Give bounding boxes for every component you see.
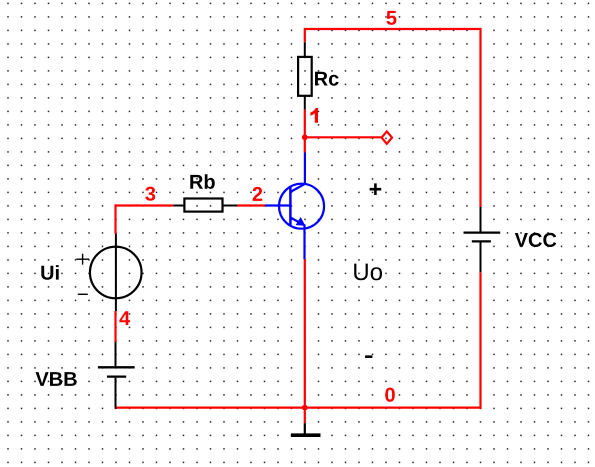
wire right vertical upper (net5 to VCC) bbox=[479, 28, 481, 207]
junction node 0 bbox=[302, 405, 308, 411]
junction node 1 bbox=[302, 134, 308, 140]
wire net0 bottom horizontal bbox=[116, 407, 481, 409]
label VCC bbox=[515, 233, 557, 247]
label Ui bbox=[41, 265, 58, 280]
wire net4 (Ui to VBB) bbox=[114, 311, 116, 342]
wire net5 top horizontal bbox=[305, 28, 481, 30]
wire net2 (Rb to base) bbox=[237, 204, 265, 206]
wire ground stub bbox=[304, 408, 306, 424]
node label 2 bbox=[253, 187, 263, 201]
annotation minus bbox=[365, 355, 372, 358]
battery VCC bbox=[464, 207, 501, 272]
annotation plus bbox=[370, 183, 382, 195]
label Rb bbox=[190, 174, 215, 189]
wire Rc top stub bbox=[304, 28, 306, 43]
ground bbox=[291, 423, 321, 435]
output terminal diamond bbox=[382, 131, 392, 143]
node label 4 bbox=[119, 311, 130, 325]
transistor Q1 bbox=[265, 153, 324, 260]
wire right vertical lower (VCC to net0) bbox=[479, 272, 481, 409]
wire emitter to net0 bbox=[304, 259, 306, 407]
wire Rc bottom to node 1 bbox=[304, 109, 306, 152]
wire net3 vertical down to Ui bbox=[114, 204, 116, 233]
node label 0 bbox=[385, 388, 395, 402]
label Rc bbox=[315, 72, 339, 86]
resistor Rb bbox=[173, 199, 237, 212]
resistor Rc bbox=[298, 42, 312, 109]
label VBB bbox=[36, 372, 77, 386]
node label 1 bbox=[310, 108, 318, 123]
wire node1 to output diamond bbox=[305, 136, 381, 138]
wire net3 horizontal bbox=[116, 204, 174, 206]
battery VBB bbox=[98, 342, 135, 409]
node label 5 bbox=[387, 11, 397, 25]
node label 3 bbox=[145, 187, 155, 201]
annotation Uo bbox=[354, 264, 382, 281]
source Ui bbox=[76, 234, 141, 311]
